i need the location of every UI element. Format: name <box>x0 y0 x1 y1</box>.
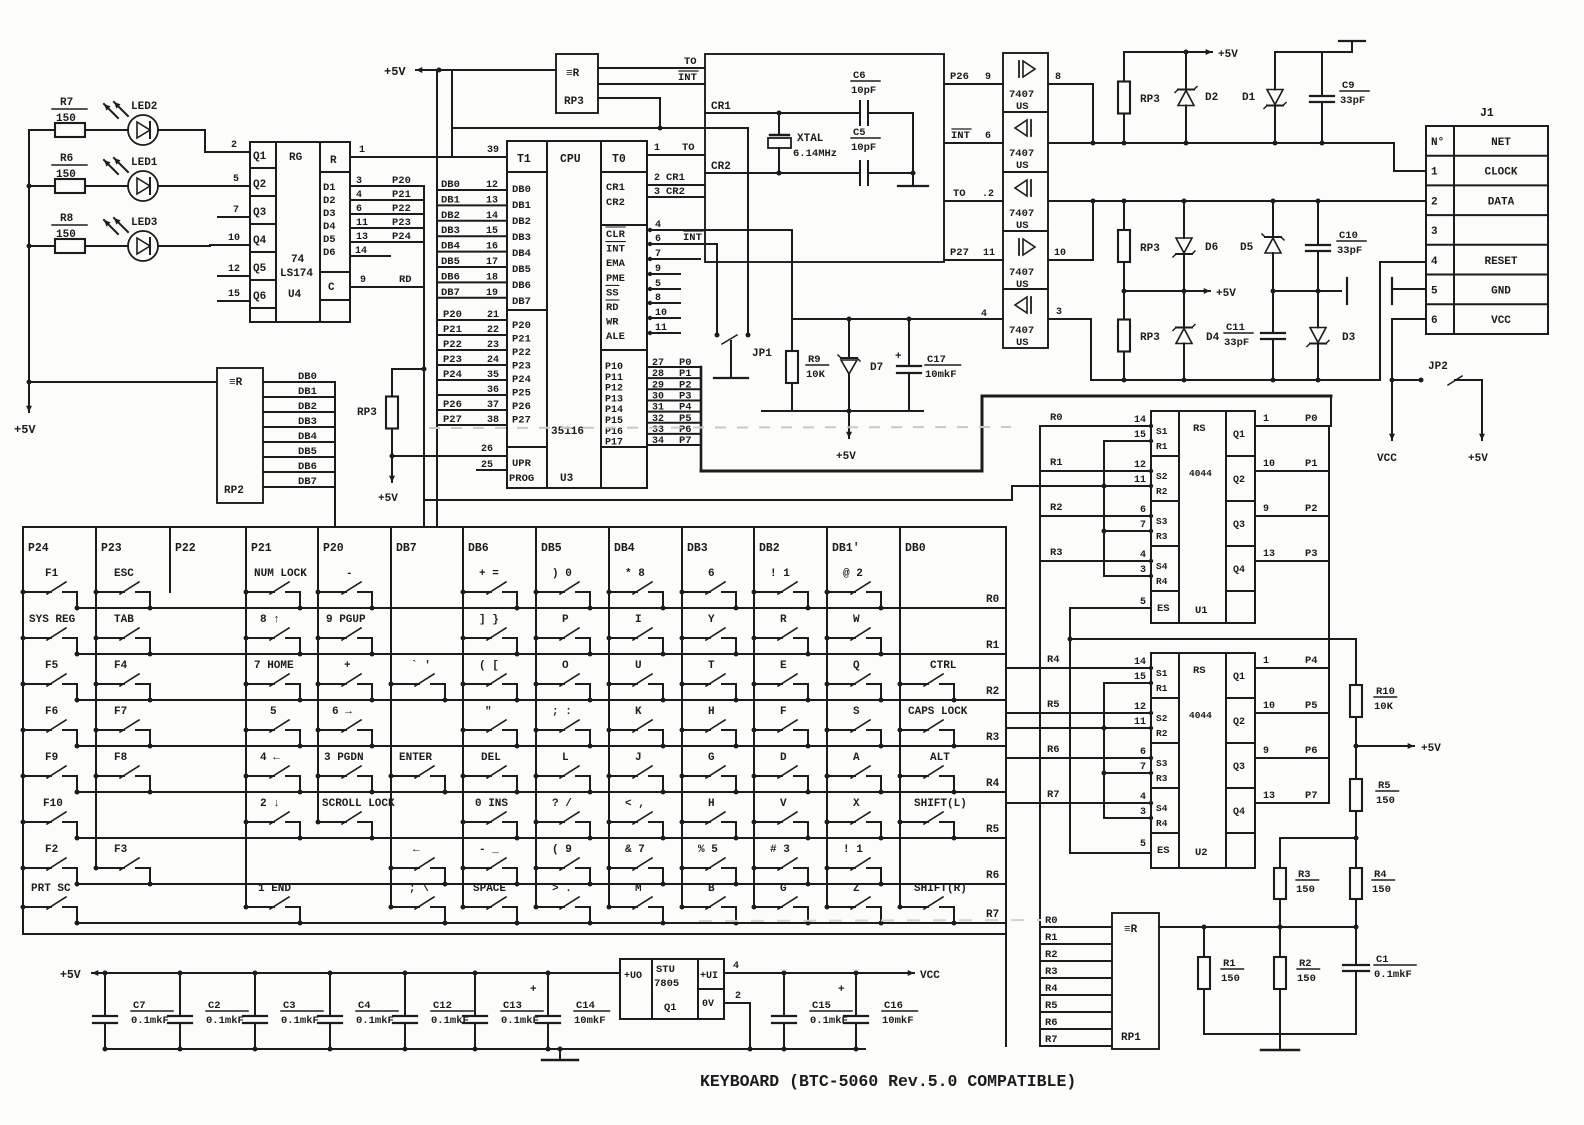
wire RP3 TO line <box>598 67 705 69</box>
svg-text:B: B <box>708 883 715 895</box>
svg-text:DB1': DB1' <box>832 542 860 555</box>
svg-text:P23: P23 <box>443 354 462 366</box>
capacitor C7 0.1mkF <box>103 971 108 976</box>
svg-text:4044: 4044 <box>1189 710 1212 721</box>
svg-text:TO: TO <box>953 188 966 200</box>
svg-text:10: 10 <box>1263 459 1275 470</box>
key switch ( [ (col DB6, row R2) <box>461 660 520 703</box>
CPU data bus DB0-DB7 wires <box>437 189 507 191</box>
svg-text:C4: C4 <box>358 1000 371 1012</box>
svg-text:12: 12 <box>1134 460 1146 471</box>
wire R2 to U1 S3 <box>1040 515 1151 517</box>
wire U4 R pin1 to +5V line <box>350 156 452 158</box>
svg-text:US: US <box>1016 160 1029 172</box>
svg-text:8: 8 <box>655 293 661 304</box>
svg-text:P21: P21 <box>512 334 531 346</box>
svg-text:G: G <box>780 883 787 895</box>
svg-text:DB6: DB6 <box>468 542 489 555</box>
crystal XTAL 6.14MHz <box>778 113 780 135</box>
svg-text:DB1: DB1 <box>298 386 317 398</box>
power +5V arrow below RP3 <box>391 456 393 482</box>
svg-text:S3: S3 <box>1156 758 1168 769</box>
7407 gate1 input P26 <box>944 83 1003 85</box>
svg-text:R5: R5 <box>1047 699 1060 711</box>
svg-text:D4: D4 <box>323 221 336 233</box>
svg-text:R7: R7 <box>1045 1034 1058 1046</box>
key switch F9 (col P24, row R4) <box>21 752 80 795</box>
svg-text:10mkF: 10mkF <box>925 369 957 381</box>
svg-text:+5V: +5V <box>1468 453 1488 465</box>
svg-text:D1: D1 <box>323 182 336 194</box>
key switch ENTER (col DB7, row R4) <box>389 752 448 795</box>
IC U4 74LS174 <box>250 142 350 322</box>
svg-text:P26: P26 <box>443 399 462 411</box>
svg-text:INT: INT <box>683 232 702 244</box>
svg-text:Q: Q <box>853 660 860 672</box>
svg-text:P24: P24 <box>392 231 411 243</box>
svg-text:DB3: DB3 <box>441 225 460 237</box>
resistor network RP2 <box>217 368 263 503</box>
svg-text:2: 2 <box>1431 196 1438 208</box>
svg-text:31: 31 <box>652 403 664 414</box>
CPU port P20-P27 wires <box>437 319 507 321</box>
svg-text:C10: C10 <box>1339 230 1358 242</box>
key switch 2 ↓ (col P21, row R5) <box>244 798 303 841</box>
key switch E (col DB2, row R2) <box>752 660 811 703</box>
svg-text:1: 1 <box>1263 656 1269 667</box>
svg-text:4: 4 <box>356 190 362 201</box>
7407 gate5 output pin 3 <box>1048 318 1091 320</box>
key switch W (col DB1', row R1) <box>825 614 884 657</box>
svg-text:LS174: LS174 <box>280 268 313 280</box>
svg-text:CLOCK: CLOCK <box>1484 167 1517 179</box>
key switch F8 (col P23, row R4) <box>94 752 153 795</box>
svg-text:5: 5 <box>1140 839 1146 850</box>
key switch ; : (col DB5, row R3) <box>534 706 593 749</box>
svg-text:9: 9 <box>985 72 991 83</box>
svg-text:15: 15 <box>228 289 240 300</box>
capacitor C6 10pF <box>859 101 861 125</box>
key switch 6 → (col P20, row R3) <box>316 706 375 749</box>
svg-text:NET: NET <box>1491 137 1511 149</box>
svg-text:L: L <box>562 752 569 764</box>
svg-text:R9: R9 <box>808 354 821 366</box>
svg-text:33pF: 33pF <box>1224 337 1249 349</box>
svg-text:28: 28 <box>652 369 664 380</box>
resistor RP3 pullup (data) <box>1123 201 1125 230</box>
svg-text:10: 10 <box>228 233 240 244</box>
key switch P (col DB5, row R1) <box>534 614 593 657</box>
svg-text:C5: C5 <box>853 127 866 139</box>
svg-text:7407: 7407 <box>1009 267 1034 279</box>
svg-text:DB5: DB5 <box>441 256 460 268</box>
svg-text:74: 74 <box>291 254 305 266</box>
svg-text:ES: ES <box>1157 603 1170 615</box>
svg-text:R5: R5 <box>1045 1000 1058 1012</box>
svg-text:1: 1 <box>359 145 365 156</box>
svg-text:19: 19 <box>486 288 498 299</box>
svg-text:D3: D3 <box>323 208 336 220</box>
resistor R2 150 <box>1274 957 1286 989</box>
svg-text:15: 15 <box>1134 672 1146 683</box>
svg-text:14: 14 <box>1134 415 1146 426</box>
svg-text:DB4: DB4 <box>512 248 531 260</box>
wire U1 ES <box>1070 607 1151 609</box>
svg-text:+5V: +5V <box>836 451 856 463</box>
key switch L (col DB5, row R4) <box>534 752 593 795</box>
svg-text:P22: P22 <box>175 542 196 555</box>
svg-text:7: 7 <box>1140 762 1146 773</box>
svg-text:U3: U3 <box>560 473 574 485</box>
U1 outputs P0-P3 <box>1255 425 1331 427</box>
power +5V arrow left <box>28 395 30 412</box>
svg-text:6: 6 <box>1140 505 1146 516</box>
svg-text:R3: R3 <box>1050 547 1063 559</box>
net bottom ground rail <box>105 1048 745 1050</box>
svg-text:P3: P3 <box>1305 548 1318 560</box>
wire R6 to U2 S3 <box>1006 757 1151 759</box>
svg-text:33pF: 33pF <box>1340 95 1365 107</box>
svg-text:DB0: DB0 <box>512 184 531 196</box>
wire LED2 to U4 Q1 <box>158 129 205 131</box>
svg-text:Q2: Q2 <box>253 179 266 191</box>
svg-text:ESC: ESC <box>114 568 134 580</box>
svg-text:+UI: +UI <box>700 971 718 982</box>
svg-text:Q1: Q1 <box>1233 430 1245 441</box>
svg-text:.2: .2 <box>982 189 994 200</box>
svg-text:R0: R0 <box>1050 412 1063 424</box>
net DATA bus <box>1048 200 1426 202</box>
svg-text:D6: D6 <box>1205 242 1218 254</box>
svg-text:INT: INT <box>951 130 970 142</box>
RP2 output wires DB0-DB7 <box>263 381 335 383</box>
svg-text:RP3: RP3 <box>1140 243 1160 255</box>
key switch & 7 (col DB4, row R6) <box>607 844 666 887</box>
capacitor C2 0.1mkF <box>178 971 183 976</box>
svg-text:5: 5 <box>1431 286 1438 298</box>
svg-text:D6: D6 <box>323 247 336 259</box>
svg-text:4: 4 <box>655 220 661 231</box>
svg-text:U4: U4 <box>288 289 302 301</box>
svg-text:R3: R3 <box>1156 531 1168 542</box>
svg-text:P21: P21 <box>251 542 272 555</box>
key switch M (col DB4, row R7) <box>607 883 666 926</box>
IC U1 4044 RS latch <box>1151 411 1255 623</box>
capacitor C14 10mkF <box>546 971 551 976</box>
key switch SHIFT(L) (col DB0, row R5) <box>898 798 967 841</box>
svg-text:D2: D2 <box>1205 92 1218 104</box>
svg-text:11: 11 <box>983 248 995 259</box>
svg-text:P4: P4 <box>1305 655 1318 667</box>
svg-text:9: 9 <box>1263 746 1269 757</box>
svg-text:CR1: CR1 <box>711 101 731 113</box>
key switch ? / (col DB5, row R5) <box>534 798 593 841</box>
svg-text:F5: F5 <box>45 660 59 672</box>
svg-text:G: G <box>708 752 715 764</box>
svg-text:SHIFT(L): SHIFT(L) <box>914 798 967 810</box>
svg-text:11: 11 <box>1134 475 1146 486</box>
svg-text:150: 150 <box>1221 973 1240 985</box>
power +5V arrow below D7 <box>848 411 850 438</box>
svg-text:+UO: +UO <box>624 971 642 982</box>
key switch X (col DB1', row R5) <box>825 798 884 841</box>
svg-text:+5V: +5V <box>384 65 406 79</box>
svg-text:33: 33 <box>652 425 664 436</box>
svg-text:R4: R4 <box>986 778 1000 790</box>
svg-text:LED2: LED2 <box>131 101 157 113</box>
svg-text:23: 23 <box>487 340 499 351</box>
svg-text:P1: P1 <box>1305 458 1318 470</box>
svg-text:10pF: 10pF <box>851 142 876 154</box>
power VCC arrow below JP2 <box>1391 380 1393 440</box>
svg-text:R5: R5 <box>1378 780 1391 792</box>
svg-text:P13: P13 <box>605 394 623 405</box>
wire U2 reset tie <box>1006 727 1151 729</box>
svg-text:38: 38 <box>487 415 499 426</box>
svg-text:R3: R3 <box>986 732 1000 744</box>
svg-text:": " <box>485 706 492 718</box>
svg-text:35: 35 <box>487 370 499 381</box>
wire ground rail right section <box>745 1048 865 1050</box>
svg-text:H: H <box>708 798 715 810</box>
svg-text:R2: R2 <box>1156 486 1168 497</box>
svg-text:RP3: RP3 <box>1140 332 1160 344</box>
svg-text:GND: GND <box>1491 286 1511 298</box>
bus channel verticals CPU to matrix <box>423 186 425 527</box>
svg-text:5: 5 <box>655 279 661 290</box>
svg-text:150: 150 <box>1296 884 1315 896</box>
svg-text:P23: P23 <box>512 361 531 373</box>
svg-text:6: 6 <box>985 131 991 142</box>
svg-text:C1: C1 <box>1376 954 1389 966</box>
svg-text:CAPS LOCK: CAPS LOCK <box>908 706 968 718</box>
wire C6/C5 junction <box>912 113 914 173</box>
svg-text:STU: STU <box>656 964 675 976</box>
svg-text:15: 15 <box>486 226 498 237</box>
svg-text:P27: P27 <box>950 247 969 259</box>
capacitor C4 0.1mkF <box>328 971 333 976</box>
net +5V bottom rail <box>113 972 620 974</box>
svg-text:P5: P5 <box>1305 700 1318 712</box>
svg-text:S: S <box>853 706 860 718</box>
IC U5 7407 buffer column <box>1003 53 1048 348</box>
CPU INT pin 6 wire to JP1 <box>647 243 717 245</box>
svg-text:14: 14 <box>355 246 367 257</box>
key switch V (col DB2, row R5) <box>752 798 811 841</box>
jumper JP1 <box>716 244 718 335</box>
ground bar at J1 GND <box>1391 278 1393 304</box>
svg-text:P20: P20 <box>512 320 531 332</box>
svg-text:T: T <box>708 660 715 672</box>
capacitor C15 0.1mkF <box>783 973 785 1016</box>
svg-text:RP3: RP3 <box>1140 94 1160 106</box>
resistor R3 150 <box>1279 838 1281 868</box>
svg-text:% 5: % 5 <box>698 844 718 856</box>
key switch F4 (col P23, row R2) <box>94 660 153 703</box>
key switch U (col DB4, row R2) <box>607 660 666 703</box>
matrix column line P21 <box>245 527 247 907</box>
svg-text:A: A <box>853 752 860 764</box>
svg-text:7 HOME: 7 HOME <box>254 660 294 672</box>
svg-text:13: 13 <box>486 195 498 206</box>
svg-text:SPACE: SPACE <box>473 883 506 895</box>
wire R3 to U1 S4 <box>1040 560 1151 562</box>
svg-text:1: 1 <box>1263 414 1269 425</box>
svg-text:DB0: DB0 <box>298 371 317 383</box>
resistor network RP1 <box>1112 913 1159 1049</box>
svg-text:10K: 10K <box>806 369 826 381</box>
svg-text:+: + <box>895 351 902 363</box>
key switch ! 1 (col DB1', row R6) <box>825 844 884 887</box>
svg-text:150: 150 <box>56 113 76 125</box>
svg-text:Y: Y <box>708 614 715 626</box>
svg-text:INT: INT <box>606 244 625 256</box>
svg-text:0.1mkF: 0.1mkF <box>206 1015 244 1027</box>
net RESET bottom bus <box>1091 379 1380 381</box>
svg-text:US: US <box>1016 337 1029 349</box>
key switch F3 (col P23, row R6) <box>94 844 153 887</box>
svg-text:C6: C6 <box>853 70 866 82</box>
CPU T0 pin 1 wire <box>647 154 705 156</box>
svg-text:R4: R4 <box>1156 576 1168 587</box>
power +5V arrow (clock) <box>1186 51 1212 53</box>
diode D3 <box>1317 291 1319 328</box>
capacitor C10 33pF <box>1317 201 1319 245</box>
svg-text:C17: C17 <box>927 354 946 366</box>
wire 7407 input net <box>792 318 1002 320</box>
svg-text:R2: R2 <box>1050 502 1063 514</box>
power VCC arrow bottom <box>890 972 914 974</box>
svg-text:R4: R4 <box>1156 818 1168 829</box>
svg-text:* 8: * 8 <box>625 568 645 580</box>
svg-text:KEYBOARD (BTC-5060 Rev.5.0 COM: KEYBOARD (BTC-5060 Rev.5.0 COMPATIBLE) <box>700 1072 1076 1091</box>
svg-text:C15: C15 <box>812 1000 831 1012</box>
svg-text:2: 2 <box>231 140 237 151</box>
svg-text:4 ←: 4 ← <box>260 752 280 764</box>
key switch % 5 (col DB3, row R6) <box>680 844 739 887</box>
svg-text:TAB: TAB <box>114 614 134 626</box>
key switch 4 ← (col P21, row R4) <box>244 752 303 795</box>
key switch DEL (col DB6, row R4) <box>461 752 520 795</box>
U4 pin 12 stub <box>218 275 250 277</box>
svg-text:DB2: DB2 <box>759 542 780 555</box>
key switch 0 INS (col DB6, row R5) <box>461 798 520 841</box>
svg-text:< ,: < , <box>625 798 645 810</box>
svg-text:PME: PME <box>606 273 625 285</box>
capacitor C9 33pF <box>1321 52 1323 96</box>
key switch ; \ (col DB7, row R7) <box>389 883 448 926</box>
svg-text:R2: R2 <box>986 686 999 698</box>
svg-text:SYS REG: SYS REG <box>29 614 76 626</box>
key switch ] } (col DB6, row R1) <box>461 614 520 657</box>
svg-text:9: 9 <box>655 264 661 275</box>
key switch G (col DB3, row R4) <box>680 752 739 795</box>
svg-text:DB6: DB6 <box>512 280 531 292</box>
svg-text:6: 6 <box>1431 315 1438 327</box>
svg-text:SS: SS <box>606 287 619 299</box>
svg-text:LED1: LED1 <box>131 157 158 169</box>
wire RP3 INT line <box>598 83 705 85</box>
svg-text:CR1: CR1 <box>606 182 625 194</box>
svg-text:150: 150 <box>56 169 76 181</box>
key switch + (col P20, row R2) <box>316 660 375 703</box>
svg-text:S2: S2 <box>1156 471 1168 482</box>
key switch T (col DB3, row R2) <box>680 660 739 703</box>
svg-text:10pF: 10pF <box>851 85 876 97</box>
svg-text:& 7: & 7 <box>625 844 645 856</box>
matrix column line DB3 <box>681 527 683 907</box>
key switch 5 (col P21, row R3) <box>244 706 303 749</box>
diode D1 <box>1274 52 1276 90</box>
svg-text:P24: P24 <box>28 542 49 555</box>
keyboard matrix outline <box>23 527 1006 934</box>
svg-text:CR2: CR2 <box>606 197 625 209</box>
svg-text:DB6: DB6 <box>298 461 317 473</box>
svg-text:P24: P24 <box>443 369 462 381</box>
svg-text:> .: > . <box>552 883 572 895</box>
svg-text:37: 37 <box>487 400 499 411</box>
svg-text:TO: TO <box>684 56 697 68</box>
svg-text:NUM LOCK: NUM LOCK <box>254 568 307 580</box>
svg-text:DB2: DB2 <box>512 216 531 228</box>
svg-text:Q3: Q3 <box>1233 762 1245 773</box>
CPU CLR pin 4 wire to reset net <box>647 229 792 231</box>
svg-text:Q5: Q5 <box>253 263 267 275</box>
svg-text:12: 12 <box>1134 702 1146 713</box>
frame right edge latch area <box>1330 396 1332 426</box>
ground symbol bottom rail <box>559 1049 561 1058</box>
svg-text:+: + <box>838 984 845 996</box>
svg-text:CR2: CR2 <box>711 161 731 173</box>
svg-text:U1: U1 <box>1195 605 1208 617</box>
7407 gate4 input P27 <box>944 259 1003 261</box>
svg-text:Q2: Q2 <box>1233 475 1245 486</box>
svg-text:C11: C11 <box>1226 322 1245 334</box>
svg-text:+5V: +5V <box>1216 288 1236 300</box>
svg-text:VCC: VCC <box>920 970 940 982</box>
key switch F5 (col P24, row R2) <box>21 660 80 703</box>
matrix row bus lines R0-R7 <box>77 607 1006 609</box>
svg-text:←: ← <box>413 844 420 856</box>
matrix column line DB5 <box>535 527 537 907</box>
svg-text:( 9: ( 9 <box>552 844 572 856</box>
svg-text:R2: R2 <box>1299 958 1312 970</box>
svg-text:C2: C2 <box>208 1000 221 1012</box>
U4 pin 15 stub <box>218 300 250 302</box>
svg-text:R2: R2 <box>1156 728 1168 739</box>
svg-text:29: 29 <box>652 380 664 391</box>
ground symbol bottom-right <box>1279 1034 1281 1048</box>
ground bar mid <box>1346 278 1348 304</box>
key switch NUM LOCK (col P21, row R0) <box>244 568 308 611</box>
svg-text:33pF: 33pF <box>1337 245 1362 257</box>
svg-text:2 ↓: 2 ↓ <box>260 798 280 810</box>
wire R0 to U1 S1 <box>1040 425 1151 427</box>
key switch F6 (col P24, row R3) <box>21 706 80 749</box>
bus channel right of matrix <box>1005 527 1007 1046</box>
svg-text:P17: P17 <box>605 438 623 449</box>
matrix column line DB6 <box>462 527 464 907</box>
svg-text:16: 16 <box>486 242 498 253</box>
diode D2 <box>1185 52 1187 90</box>
svg-text:34: 34 <box>652 436 664 447</box>
svg-text:10mkF: 10mkF <box>574 1015 606 1027</box>
key switch J (col DB4, row R4) <box>607 752 666 795</box>
svg-text:+: + <box>530 984 537 996</box>
key switch 7 HOME (col P21, row R2) <box>244 660 303 703</box>
matrix column line P20 <box>317 527 319 822</box>
svg-text:8: 8 <box>1055 72 1061 83</box>
